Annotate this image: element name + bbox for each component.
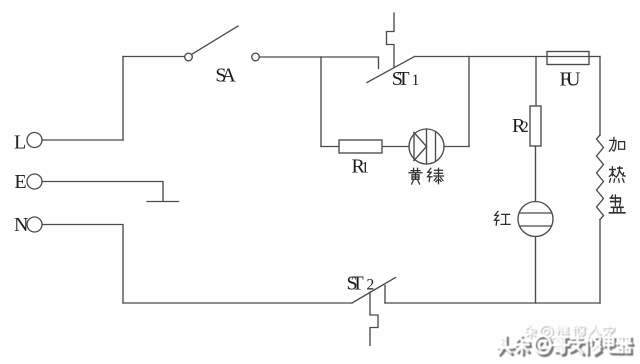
svg-text:SA: SA xyxy=(215,64,236,86)
svg-text:2: 2 xyxy=(367,276,375,293)
svg-text:1: 1 xyxy=(361,159,369,176)
svg-text:2: 2 xyxy=(521,119,529,136)
svg-text:ST: ST xyxy=(347,272,364,294)
svg-text:N: N xyxy=(14,214,28,236)
svg-text:FU: FU xyxy=(560,68,582,90)
svg-text:E: E xyxy=(14,171,26,193)
svg-text:ST: ST xyxy=(392,68,410,90)
svg-text:1: 1 xyxy=(412,72,420,89)
svg-text:L: L xyxy=(14,131,26,153)
